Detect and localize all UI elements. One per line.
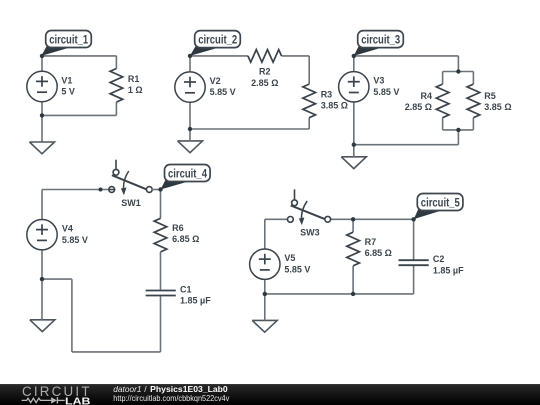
svg-text:5.85 V: 5.85 V [62,235,88,245]
svg-text:R5: R5 [484,91,496,101]
svg-text:5.85 V: 5.85 V [284,264,310,274]
svg-text:circuit_4: circuit_4 [168,167,207,181]
svg-text:V5: V5 [284,253,295,263]
svg-text:http://circuitlab.com/cbbkqn52: http://circuitlab.com/cbbkqn522cv4v [113,393,230,403]
svg-text:LAB: LAB [65,395,91,405]
svg-text:1 Ω: 1 Ω [128,85,143,95]
svg-text:circuit_1: circuit_1 [49,33,88,47]
svg-text:V3: V3 [373,76,384,86]
svg-text:3.85 Ω: 3.85 Ω [321,101,348,111]
svg-text:circuit_2: circuit_2 [198,33,237,47]
svg-text:3.85 Ω: 3.85 Ω [484,102,511,112]
svg-text:circuit_5: circuit_5 [421,196,460,210]
svg-text:SW1: SW1 [121,198,141,208]
svg-text:1.85 µF: 1.85 µF [433,265,464,275]
svg-text:V1: V1 [61,75,72,85]
svg-text:2.85 Ω: 2.85 Ω [405,102,432,112]
svg-text:R7: R7 [365,237,377,247]
svg-text:C1: C1 [180,284,192,294]
svg-text:SW3: SW3 [300,228,320,238]
svg-text:C2: C2 [433,254,445,264]
svg-text:1.85 µF: 1.85 µF [180,296,211,306]
svg-text:6.85 Ω: 6.85 Ω [172,234,199,244]
svg-text:2.85 Ω: 2.85 Ω [251,78,278,88]
svg-text:V2: V2 [210,76,221,86]
svg-text:R3: R3 [321,89,333,99]
svg-text:circuit_3: circuit_3 [361,33,400,47]
svg-text:5.85 V: 5.85 V [373,87,399,97]
svg-text:R4: R4 [420,91,432,101]
svg-text:V4: V4 [62,224,73,234]
svg-text:R6: R6 [172,223,184,233]
svg-text:6.85 Ω: 6.85 Ω [365,248,392,258]
svg-text:R2: R2 [259,67,271,77]
svg-text:5 V: 5 V [61,87,75,97]
svg-text:5.85 V: 5.85 V [210,87,236,97]
svg-text:R1: R1 [128,74,140,84]
